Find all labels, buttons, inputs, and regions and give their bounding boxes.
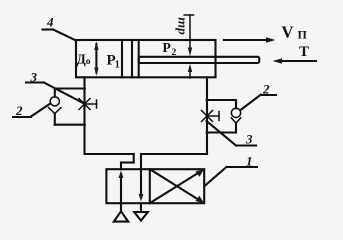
arrowhead T (273, 58, 283, 63)
junction: left bypass top (83, 87, 86, 90)
T force arrow shaft (279, 60, 316, 62)
check valve 2 (right) ball (231, 108, 240, 117)
check valve 2 (right) seat (231, 118, 240, 123)
svg-text:о: о (86, 57, 91, 67)
pressure source triangle (114, 211, 128, 221)
svg-text:1: 1 (115, 60, 120, 71)
label 2 (left) leader (31, 104, 50, 117)
throttle 3 (right) adjuster bar (218, 112, 220, 121)
svg-text:Т: Т (299, 44, 309, 60)
dimension arrow Do (bore diameter) (95, 44, 97, 73)
wire: drop into distributor right port (140, 154, 142, 169)
svg-text:V: V (282, 23, 294, 42)
wire: down to exhaust triangle (140, 203, 142, 212)
wire: down to right check valve (235, 100, 237, 108)
throttle 3 (left) cross (79, 99, 90, 110)
distributor crossed path (right square) (150, 171, 201, 203)
junction: right bypass bottom (206, 131, 209, 134)
arrowhead Do top (94, 42, 98, 51)
svg-text:2: 2 (262, 82, 270, 97)
arrowhead Do bottom (94, 68, 98, 76)
label 2 (right) leader (241, 95, 262, 111)
throttle 3 (left) adjuster stem (85, 103, 97, 105)
distributor valve 1 position divider (149, 169, 151, 203)
arrowhead dsh up to rod bottom (188, 64, 192, 72)
svg-text:P: P (163, 40, 171, 55)
throttle 3 (right) cross (202, 111, 213, 122)
piston left face (131, 40, 133, 77)
dimension line dsh: vertical from rod bottom (189, 68, 191, 78)
Vp velocity arrow shaft (224, 39, 269, 41)
label 1 leader (205, 167, 227, 186)
cylinder 4 body (76, 40, 216, 77)
throttle 3 (right) adjuster stem (207, 115, 219, 117)
arrowhead crossed path lower (195, 196, 204, 204)
arrowhead distributor down path (139, 194, 144, 202)
svg-text:1: 1 (246, 154, 253, 169)
wire: left cylinder port to valve node (83, 77, 85, 154)
svg-text:dш: dш (173, 17, 188, 35)
arrowhead Vp (266, 37, 276, 42)
label 4 underline (43, 28, 54, 30)
dimension line dsh: vertical to rod top (189, 15, 191, 51)
wire: below right seat (235, 123, 237, 133)
wire: right cylinder port to valve node (206, 77, 208, 154)
wire: right node to distributor horizontal (141, 153, 207, 155)
arrowhead crossed path upper (195, 169, 204, 177)
label 3 (right) leader (207, 121, 237, 146)
wire: right bypass bottom horizontal (207, 131, 236, 133)
svg-text:3: 3 (245, 132, 253, 147)
distributor valve 1 body (106, 169, 204, 203)
label 1 underline (227, 166, 258, 168)
label 3 (left) leader (44, 83, 83, 104)
junction: left bypass bottom (83, 123, 86, 126)
wire: left node to distributor horizontal (85, 153, 134, 155)
arrowhead dsh down to rod top (188, 48, 192, 57)
check valve 2 (left) seat (49, 108, 61, 114)
junction: right bypass top (206, 99, 209, 102)
dimension line dsh: top tick (184, 14, 193, 16)
wire: jog left (121, 161, 134, 163)
distributor flow path down (left square) (140, 169, 142, 197)
label 4 leader (53, 30, 76, 41)
wire: left bypass bottom horizontal (55, 124, 85, 126)
cylinder 4 inner wall (121, 40, 123, 77)
wire: drop into distributor left port (120, 163, 122, 170)
label 3 (right) underline (236, 144, 256, 146)
check valve 2 (left) ball (50, 97, 59, 106)
exhaust triangle (134, 212, 148, 221)
throttle 3 (left) adjuster bar (96, 100, 98, 108)
label 2 (right) underline (261, 94, 276, 96)
wire: left bypass top horizontal (55, 87, 85, 89)
svg-text:3: 3 (30, 70, 38, 85)
wire: right bypass top horizontal (207, 99, 236, 101)
svg-text:П: П (298, 27, 308, 41)
arrowhead distributor up path (119, 171, 124, 179)
label 2 (left) underline (13, 116, 31, 118)
wire: jog down (133, 154, 135, 163)
wire: below left seat (54, 114, 56, 125)
piston rod (139, 57, 260, 63)
label 3 (left) underline (26, 81, 44, 83)
piston right face (138, 40, 140, 77)
wire: down to left check valve (54, 89, 56, 97)
svg-text:2: 2 (15, 103, 23, 118)
svg-text:4: 4 (46, 15, 54, 30)
svg-text:2: 2 (172, 48, 177, 58)
distributor flow path up (left square) (120, 174, 122, 211)
